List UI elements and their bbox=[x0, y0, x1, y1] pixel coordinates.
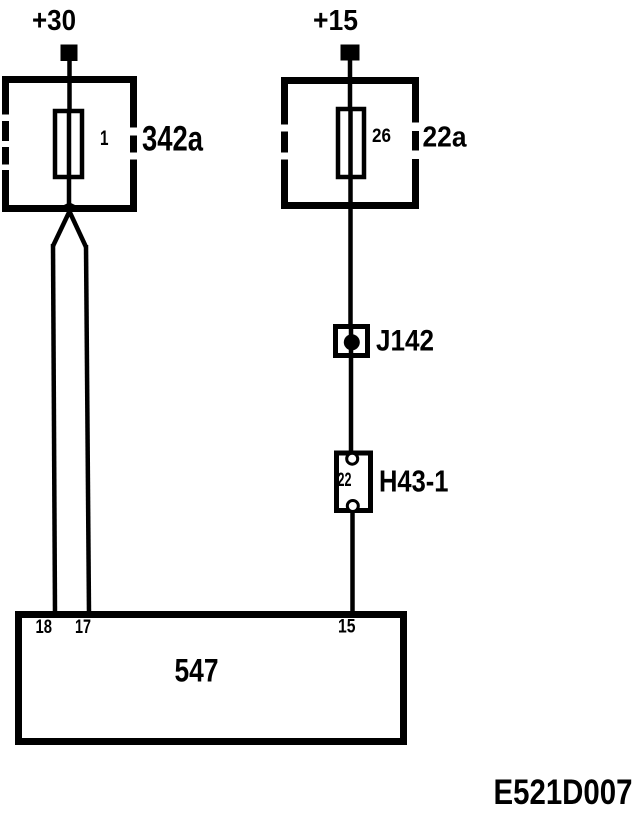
wire from connector H43-1 to unit 547 pin 15 bbox=[350, 511, 355, 614]
svg-text:E521D007: E521D007 bbox=[494, 773, 633, 812]
svg-text:22: 22 bbox=[338, 470, 352, 491]
svg-text:15: 15 bbox=[338, 617, 356, 638]
node +15 supply terminal (filled square) bbox=[341, 45, 360, 61]
wire from splice J142 to connector H43-1 bbox=[349, 356, 354, 455]
svg-text:17: 17 bbox=[75, 617, 91, 638]
fuse 26 body bbox=[338, 109, 364, 177]
svg-text:1: 1 bbox=[100, 127, 109, 150]
svg-text:J142: J142 bbox=[376, 325, 434, 358]
splice J142 (box with solder point) bbox=[336, 327, 368, 357]
fusebox 22a frame (dashed component boundary) bbox=[280, 81, 420, 206]
node +30 supply terminal (filled square) bbox=[61, 45, 78, 62]
wire through fuse 26 bbox=[348, 107, 353, 205]
wire pair right conductor to pin 17 bbox=[86, 245, 89, 614]
fuse 1 body bbox=[55, 111, 82, 177]
wire pair left conductor to pin 18 bbox=[53, 244, 55, 614]
wire from +15 terminal to fusebox 22a bbox=[348, 60, 353, 112]
connector H43-1 body bbox=[337, 453, 371, 512]
svg-text:342a: 342a bbox=[142, 120, 203, 159]
twisted-pair crossover below 342a bbox=[53, 204, 73, 246]
svg-text:+30: +30 bbox=[32, 5, 76, 37]
svg-text:26: 26 bbox=[372, 125, 391, 147]
wire through fuse 1 bbox=[67, 109, 72, 207]
svg-text:547: 547 bbox=[175, 653, 219, 689]
svg-text:18: 18 bbox=[36, 617, 53, 638]
wire from fusebox 22a to splice J142 bbox=[348, 205, 353, 330]
wire from +30 terminal to fusebox 342a bbox=[67, 60, 72, 112]
svg-text:22a: 22a bbox=[423, 122, 468, 154]
svg-text:H43-1: H43-1 bbox=[379, 464, 449, 499]
svg-text:+15: +15 bbox=[313, 5, 358, 37]
fusebox 342a frame (dashed component boundary) bbox=[1, 80, 138, 209]
control unit 547 box bbox=[19, 615, 404, 742]
